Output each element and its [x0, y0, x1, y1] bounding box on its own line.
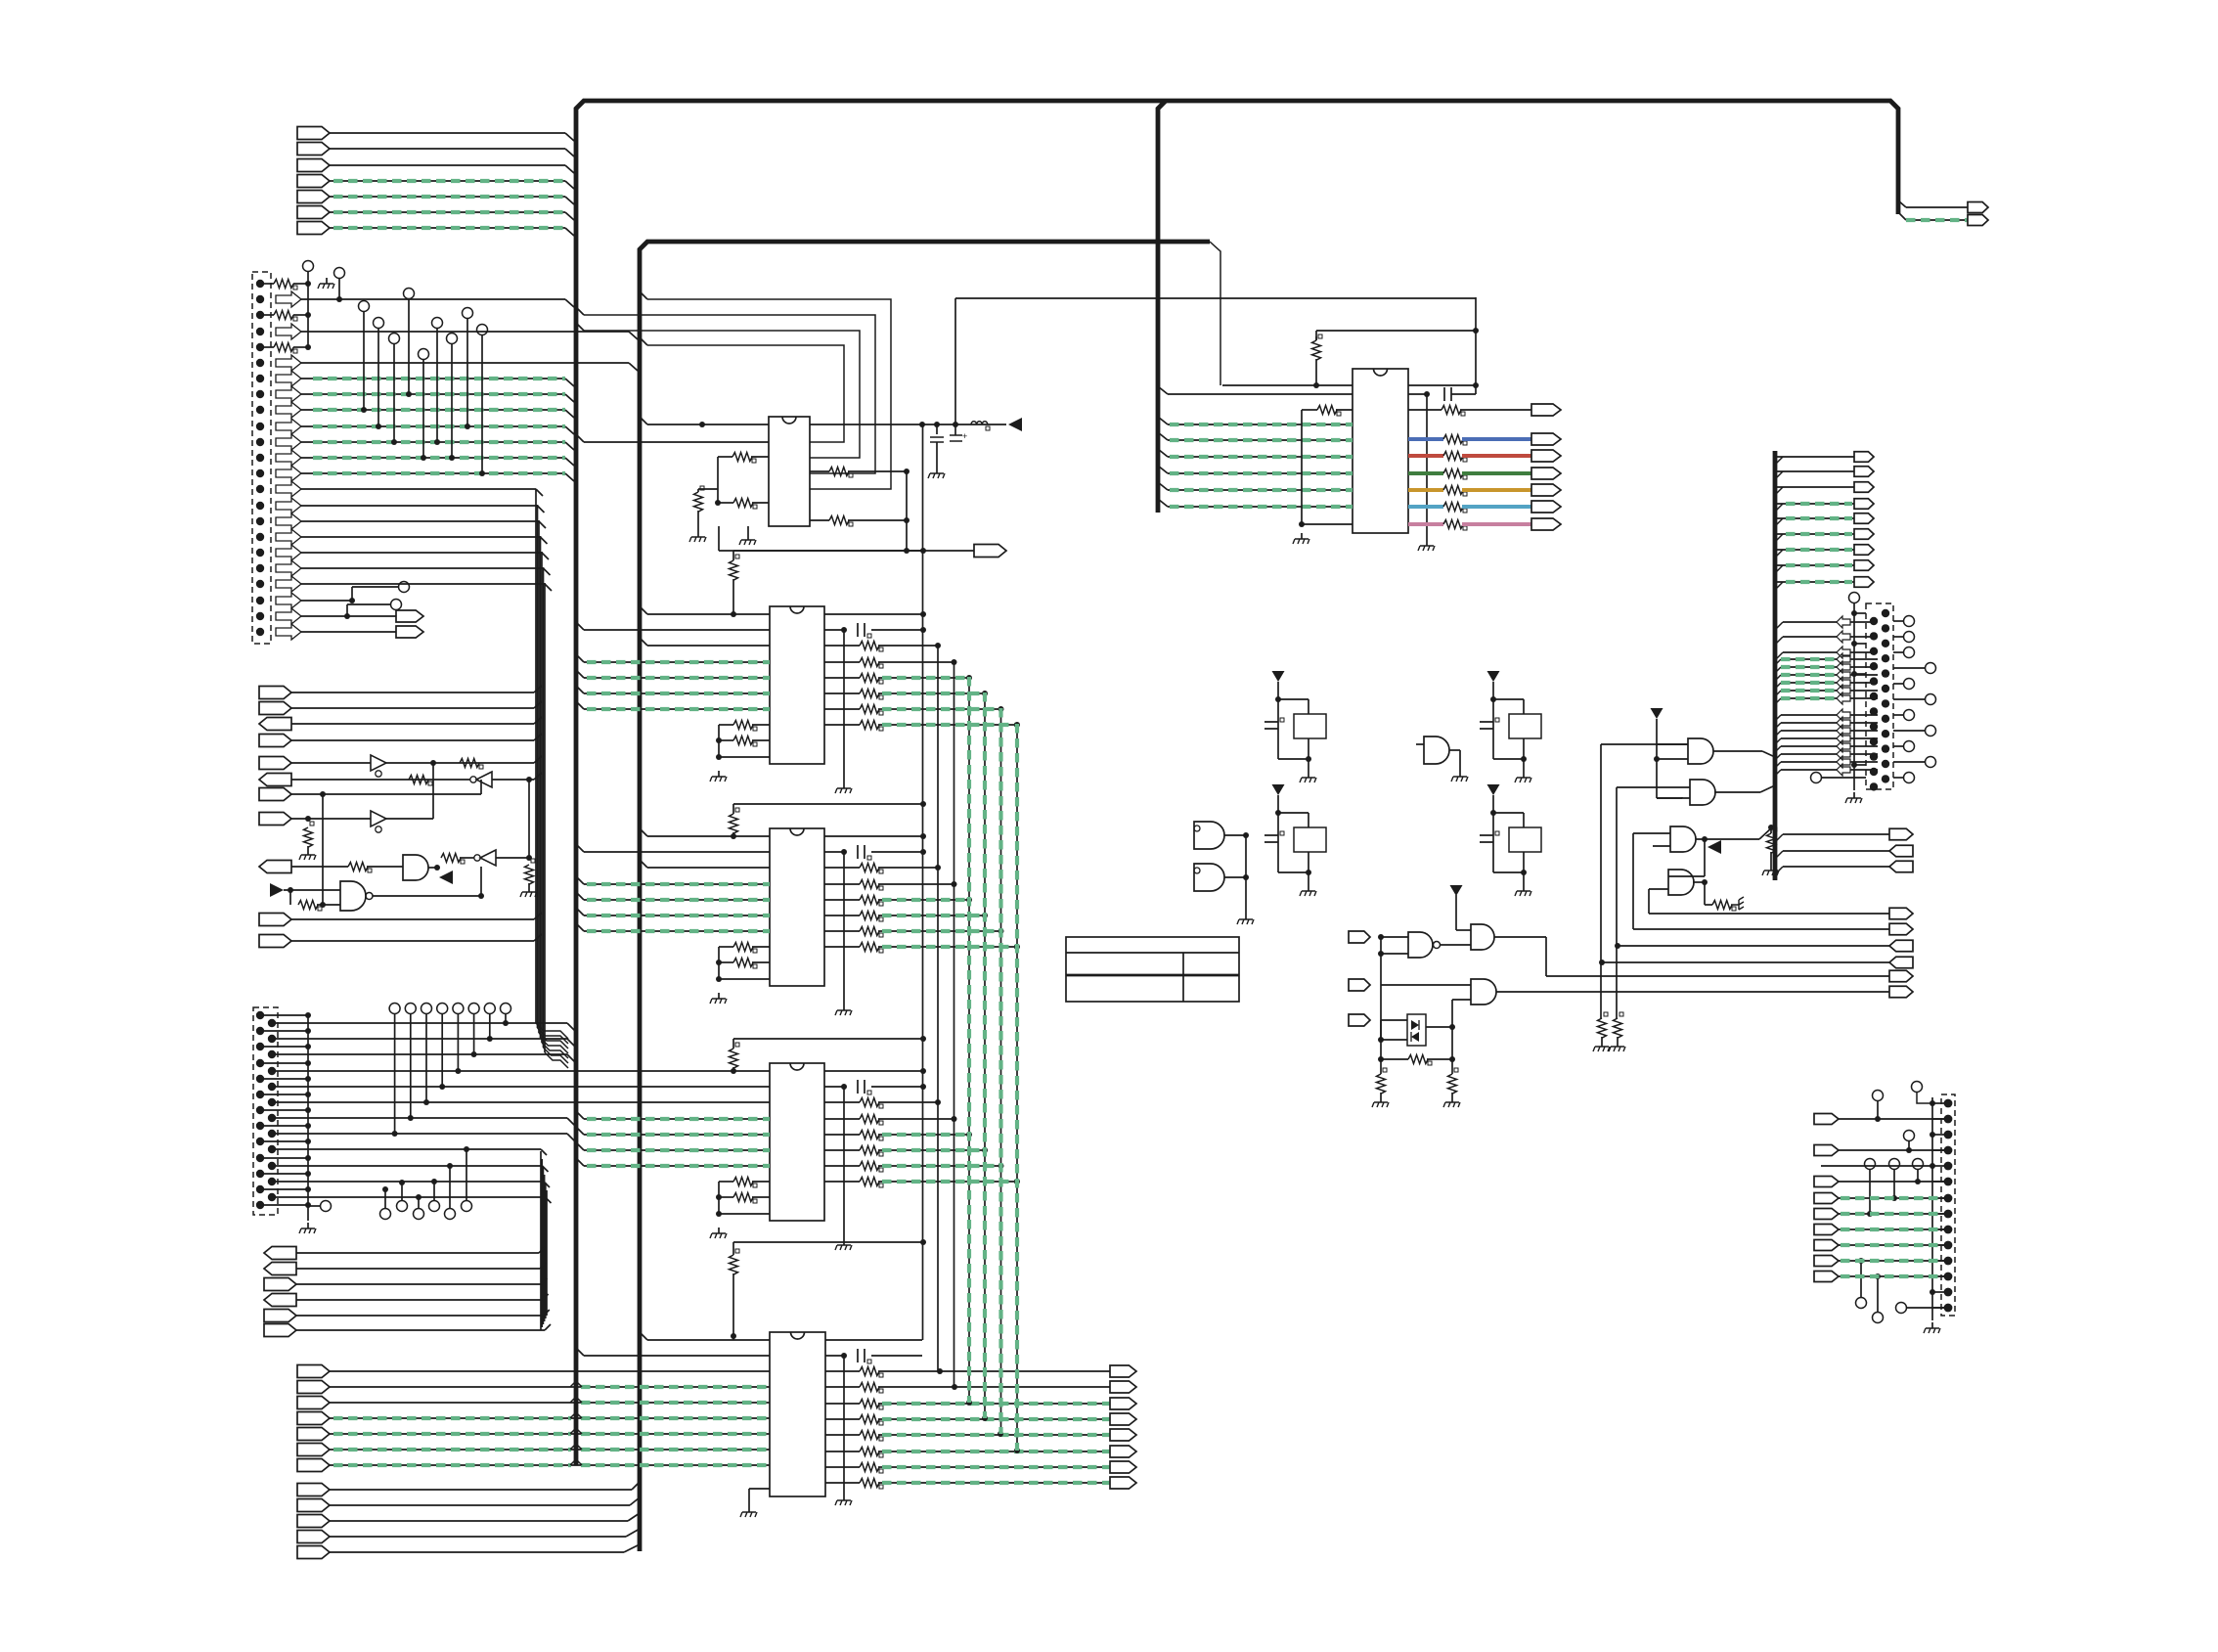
svg-text:+: + [962, 431, 967, 441]
